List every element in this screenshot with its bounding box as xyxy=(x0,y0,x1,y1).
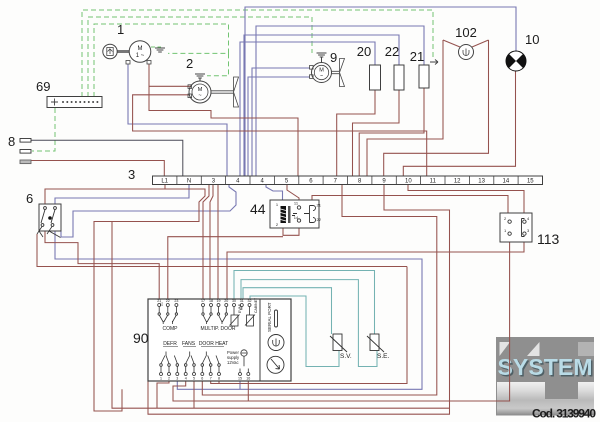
svg-text:SERIAL PORT: SERIAL PORT xyxy=(267,302,272,332)
svg-text:21: 21 xyxy=(157,299,161,303)
svg-text:L1: L1 xyxy=(161,179,168,185)
svg-text:15: 15 xyxy=(527,179,534,185)
svg-text:1 ~: 1 ~ xyxy=(136,53,145,59)
svg-text:20: 20 xyxy=(224,299,228,303)
svg-text:1: 1 xyxy=(117,22,124,37)
svg-text:M: M xyxy=(138,46,143,52)
svg-text:32: 32 xyxy=(248,299,252,303)
svg-text:12Vac: 12Vac xyxy=(227,360,239,365)
svg-text:16: 16 xyxy=(246,377,250,381)
svg-text:10: 10 xyxy=(525,32,539,47)
svg-text:14: 14 xyxy=(294,215,299,220)
svg-text:13: 13 xyxy=(478,179,485,185)
svg-text:44: 44 xyxy=(250,201,266,217)
svg-text:5: 5 xyxy=(193,377,195,381)
svg-text:4: 4 xyxy=(185,377,187,381)
svg-text:9: 9 xyxy=(330,50,337,65)
svg-text:EVAP: EVAP xyxy=(238,303,242,313)
svg-text:1: 1 xyxy=(160,377,162,381)
svg-text:~: ~ xyxy=(198,93,201,99)
svg-text:MULTIP. DOOR: MULTIP. DOOR xyxy=(200,326,235,332)
svg-text:CABINET: CABINET xyxy=(254,297,258,313)
svg-text:6: 6 xyxy=(201,377,203,381)
svg-text:3: 3 xyxy=(176,377,178,381)
svg-text:31: 31 xyxy=(240,299,244,303)
svg-text:2: 2 xyxy=(168,377,170,381)
svg-text:DOOR HEAT: DOOR HEAT xyxy=(199,341,228,347)
svg-text:10: 10 xyxy=(405,179,412,185)
svg-text:90: 90 xyxy=(133,330,149,346)
svg-text:2: 2 xyxy=(186,56,193,71)
svg-text:11: 11 xyxy=(430,179,437,185)
svg-text:113: 113 xyxy=(537,231,560,247)
svg-text:22: 22 xyxy=(166,299,170,303)
svg-text:15: 15 xyxy=(238,377,242,381)
svg-text:S.E.: S.E. xyxy=(377,353,389,360)
svg-text:8: 8 xyxy=(218,377,220,381)
svg-text:69: 69 xyxy=(36,79,50,94)
svg-text:14: 14 xyxy=(503,179,510,185)
svg-text:SYSTEM: SYSTEM xyxy=(498,354,593,380)
svg-text:8: 8 xyxy=(8,134,15,149)
svg-text:22: 22 xyxy=(385,44,399,59)
svg-text:20: 20 xyxy=(357,44,371,59)
svg-text:~: ~ xyxy=(320,74,323,80)
svg-text:6: 6 xyxy=(26,191,33,206)
svg-text:17: 17 xyxy=(201,299,205,303)
svg-text:23: 23 xyxy=(174,299,178,303)
svg-text:18: 18 xyxy=(209,299,213,303)
svg-text:S.V.: S.V. xyxy=(340,353,352,360)
svg-text:21: 21 xyxy=(410,49,424,64)
svg-text:Cod. 3139940: Cod. 3139940 xyxy=(532,407,596,421)
svg-text:DEFR: DEFR xyxy=(163,341,177,347)
svg-text:22: 22 xyxy=(317,217,322,222)
svg-text:19: 19 xyxy=(217,299,221,303)
svg-text:102: 102 xyxy=(455,25,477,40)
svg-text:3: 3 xyxy=(128,167,135,182)
svg-text:N: N xyxy=(187,179,191,185)
svg-text:7: 7 xyxy=(210,377,212,381)
svg-text:30: 30 xyxy=(232,299,236,303)
svg-text:COMP: COMP xyxy=(163,326,179,332)
svg-text:21: 21 xyxy=(317,203,322,208)
svg-text:FANS: FANS xyxy=(182,341,196,347)
svg-text:12: 12 xyxy=(454,179,461,185)
